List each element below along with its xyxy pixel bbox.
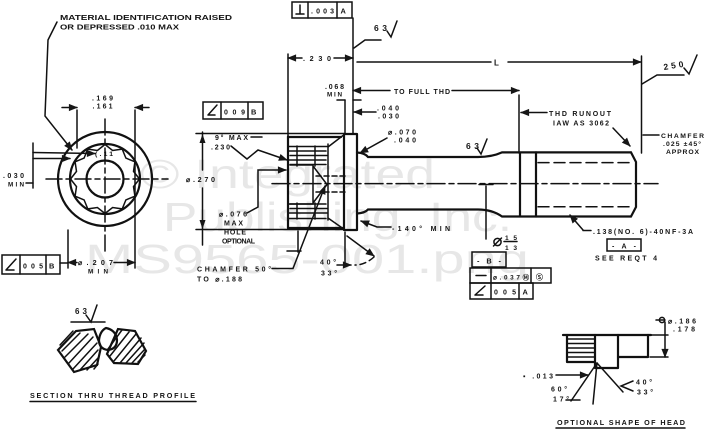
head side view: flute verticals [297,146,315,219]
head side view: left face [287,137,289,229]
thread profile section: right tooth outline [107,329,146,364]
optional head: washer section [595,335,618,368]
extension lines below head for angles [287,231,301,252]
svg-text:60°: 60° [551,386,567,394]
optional head: top edge extension dash [652,334,668,336]
svg-text:-140° MIN: -140° MIN [392,225,450,233]
thread profile section: line under finish mark [71,321,105,323]
svg-text:40°: 40° [320,259,336,267]
dim .230 head height [288,57,302,59]
optional head: angle arrow 40/33 [621,381,633,391]
position frame dia .037 M S [470,268,551,283]
full thread start line [535,152,537,216]
optional head: boss dimension dia .186/.178 [650,356,668,358]
svg-text:▪ .013: ▪ .013 [523,374,553,381]
svg-text:33°: 33° [637,389,653,397]
thread profile section: root radius droplet [99,328,117,350]
head front view: vertical centerline [104,119,106,251]
head front view: outer circle (flange OD) [58,132,152,226]
svg-text:.138(NO. 6)-40NF-3A: .138(NO. 6)-40NF-3A [593,229,693,236]
dia .207 dimension line with arrows [68,262,77,264]
head side view: bottom edge [288,227,344,229]
thread profile section: left tooth outline [58,329,101,372]
optional head: left fluted section [567,335,595,362]
thread end chamfer and end face [631,152,636,216]
svg-text:THD RUNOUT: THD RUNOUT [549,111,612,118]
optional head: right boss [618,335,648,357]
head side view: flute section right boundary [327,144,329,220]
extension line at right end [641,56,643,153]
shank bottom edge [357,210,631,217]
thread runout boundary line [519,153,521,216]
svg-text:⌀.186: ⌀.186 [668,319,696,326]
head side view: internal socket outline [290,165,327,204]
svg-text:MS9565-001.png: MS9565-001.png [85,236,529,282]
head side view: hidden hole dashes [316,176,345,192]
svg-text:MIN: MIN [88,269,108,276]
svg-text:17°: 17° [553,396,569,404]
head side view: top edge [288,136,341,138]
dim .169/.161 extension line left [76,110,78,148]
svg-text:40°: 40° [636,379,652,387]
head side view: flute band bottom [289,204,327,219]
angle 40/33 lines [347,236,374,256]
svg-text:.068: .068 [325,84,344,91]
flange (washer) outline [344,134,357,230]
dia .207 extension line left [67,230,69,268]
optional head: angle construction lines [571,363,597,401]
optional head: top edge [563,334,651,336]
head side view: cone to flange diagonals [328,136,343,229]
head front view: horizontal centerline [46,178,168,180]
svg-text:B: B [49,262,54,271]
feature control frame angularity .009 B (upper, near head view) [203,102,263,119]
svg-text:L: L [494,59,499,68]
svg-text:OR DEPRESSED .010 MAX: OR DEPRESSED .010 MAX [60,23,179,32]
dim TO FULL THD [353,90,390,92]
dim L overall [357,61,491,63]
datum feature symbol -A- [607,239,641,251]
svg-text:9° MAX: 9° MAX [215,134,248,142]
svg-text:A: A [523,288,529,297]
feature control frame angularity .005 B (lower left) [2,255,60,274]
svg-text:MIN: MIN [8,182,24,189]
dim .040/.030 [354,111,376,113]
svg-text:OPTIONAL: OPTIONAL [222,239,256,246]
extension line full thread start [518,95,520,153]
svg-text:⌀.076: ⌀.076 [219,212,247,219]
thread minor diameter hidden lines [538,163,631,207]
head front view: center hole circle [87,161,124,198]
svg-text:.025 ±45°: .025 ±45° [663,140,701,148]
dim .169/.161 extension+.207 extension line right [134,110,136,268]
head front view: 12-point tip circle [70,144,140,214]
head side view: flute band top [289,147,327,165]
svg-text:HOLE: HOLE [224,230,246,237]
dim .030 MIN bracket [32,143,34,188]
dim dia .270 head OD [196,133,344,135]
perpendicularity frame .003 A (top) [292,2,352,18]
svg-text:TO FULL THD: TO FULL THD [394,89,450,96]
svg-text:A: A [341,7,347,16]
svg-text:33°: 33° [321,270,337,278]
thread profile section: right tooth hatching [108,330,145,363]
extension of head left face up [287,54,289,136]
shank top edge with neck-up to thread [357,152,631,157]
bolt centerline [272,183,658,185]
svg-text:Publishing, Inc.: Publishing, Inc. [163,194,512,240]
svg-text:009: 009 [224,110,245,117]
datum extension line from washer face up to frame [352,18,354,133]
svg-text:MIN: MIN [327,92,342,99]
svg-text:Ⓢ: Ⓢ [536,273,543,282]
datum feature symbol -B- [472,252,506,267]
thread callout .138(NO. 6)-40NF-3A [570,215,583,230]
leader from material note to head [45,22,72,150]
svg-text:MAX: MAX [224,221,243,228]
svg-text:MATERIAL IDENTIFICATION RAISED: MATERIAL IDENTIFICATION RAISED [60,13,232,22]
svg-text:.230: .230 [211,145,230,152]
svg-text:⌀.070: ⌀.070 [388,130,416,137]
svg-text:005: 005 [494,290,516,297]
thread profile section: left tooth hatching [60,331,98,370]
svg-text:005: 005 [23,264,43,271]
dia .15/.13 callout with leader [485,186,487,239]
finish mark 63 at washer face [354,40,381,48]
head front view: 12-point broach profile [71,145,140,214]
svg-text:IAW AS 3062: IAW AS 3062 [553,121,609,128]
angularity frame .005 A [470,283,533,299]
svg-text:APPROX: APPROX [666,149,699,156]
svg-text:B: B [251,108,256,117]
finish mark 250 at right end [642,75,684,84]
dim .169/.161 arrows [62,107,77,109]
